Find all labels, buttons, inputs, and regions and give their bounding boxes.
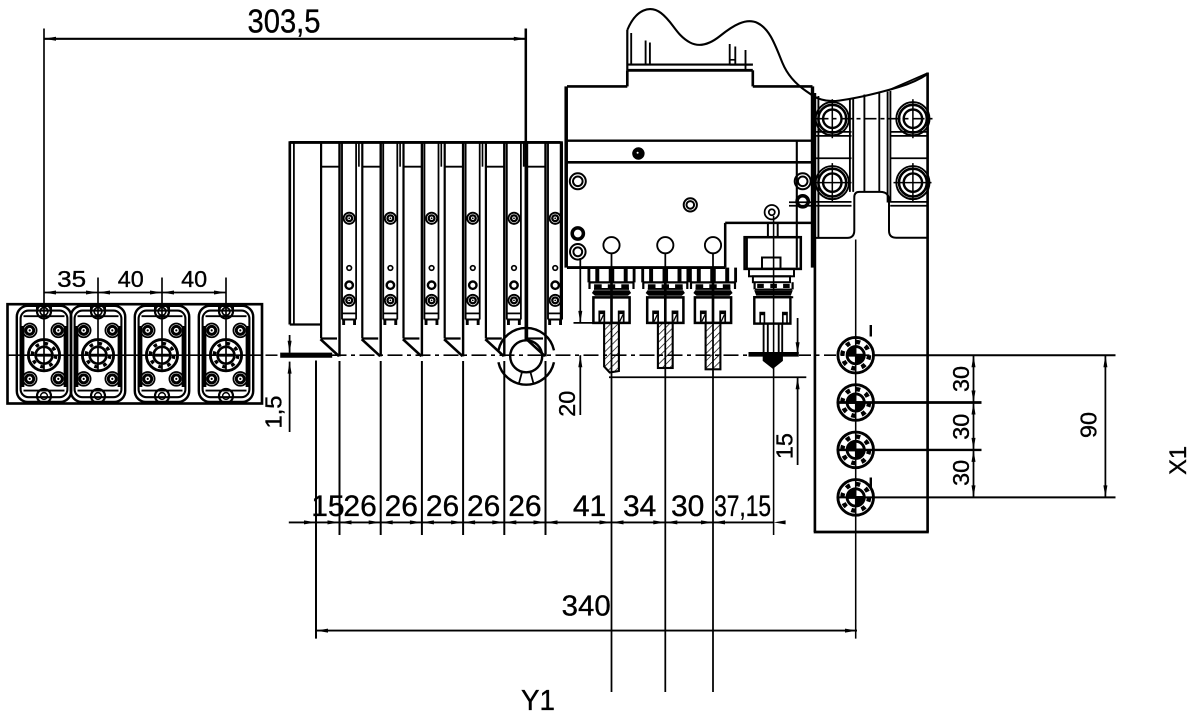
head bolt center bbox=[684, 198, 697, 211]
svg-text:26: 26 bbox=[426, 490, 459, 523]
collet slots bbox=[653, 311, 677, 323]
spindle 4 tool tip (solid) bbox=[763, 356, 783, 369]
station 1 centerline / dim 303,5 + 35 extension line bbox=[43, 29, 45, 373]
svg-text:15: 15 bbox=[771, 433, 797, 459]
collet chuck mounting teeth at x=665.3 bbox=[643, 268, 688, 283]
turret serrated coupling 2 bbox=[838, 385, 874, 421]
finger 4 small holes bbox=[467, 266, 478, 306]
spindle 4 tool sleeve bbox=[764, 324, 783, 353]
cut-off blade 2 bbox=[359, 142, 381, 356]
tool station 4 corner bolts bbox=[205, 324, 247, 386]
holder finger 5 bbox=[507, 142, 521, 325]
cut-off blade 4 bbox=[441, 142, 463, 356]
tool station 2 bottom pin bbox=[91, 389, 105, 403]
collet body bbox=[647, 282, 683, 323]
coupling alignment ticks bbox=[870, 325, 872, 489]
station 3 centerline bbox=[161, 278, 163, 373]
collet slots bbox=[701, 311, 725, 323]
corner slant line bbox=[888, 73, 928, 90]
centerline dash-dot right of bar bbox=[799, 354, 880, 356]
svg-text:26: 26 bbox=[385, 490, 418, 523]
tool station 4 bottom pin bbox=[219, 389, 233, 403]
finger 5 small holes bbox=[508, 266, 519, 306]
circular tool ring bbox=[498, 328, 554, 385]
holder finger 6 bbox=[548, 141, 562, 325]
main centerline dash-dot middle bbox=[332, 354, 749, 356]
joint lines left of plate bbox=[789, 202, 814, 206]
finger 2 small holes bbox=[385, 266, 396, 306]
coupling object lines right bbox=[838, 355, 1115, 497]
tool station 3 body bbox=[135, 306, 189, 402]
turret plate inner left line bbox=[817, 96, 819, 238]
tool station 4 serrated coupling bbox=[210, 340, 241, 371]
collet flange dashes bbox=[590, 282, 634, 289]
turret bolt mid-left bbox=[816, 163, 849, 202]
dowel pin (filled) bbox=[632, 147, 644, 159]
holder finger 4 bbox=[466, 142, 480, 325]
centerline dash bbox=[266, 354, 278, 356]
blade tip extension lines bbox=[340, 361, 546, 535]
finger 6 small holes bbox=[550, 266, 561, 306]
dimension 1,5 bbox=[261, 335, 292, 432]
spindle centerline bbox=[664, 253, 666, 692]
clamp mid columns bbox=[850, 91, 891, 203]
turret serrated coupling 4 bbox=[838, 480, 874, 516]
cut-off blade 3 bbox=[400, 142, 422, 356]
datum arrow at spindle 1 bbox=[609, 263, 614, 272]
blade holder top edge bbox=[290, 141, 561, 144]
datum extension line x=316 bbox=[315, 361, 317, 639]
tool station 1 bottom pin bbox=[37, 389, 51, 403]
finger 4 clamp bolt bbox=[467, 213, 478, 224]
svg-text:40: 40 bbox=[118, 266, 144, 292]
clamp horizontal joint lines bbox=[816, 132, 928, 206]
turret bolt top-left bbox=[816, 99, 849, 138]
collet clamping nut (solid) bbox=[693, 290, 732, 296]
station 2 centerline bbox=[97, 278, 99, 373]
dimension 303,5 bbox=[44, 3, 526, 41]
holder finger 1 bbox=[342, 142, 356, 325]
dimension 35 bbox=[44, 266, 98, 295]
tool station 2 corner bolts bbox=[77, 324, 119, 386]
spindle 4 mounting neck bbox=[768, 223, 778, 237]
svg-text:90: 90 bbox=[1076, 412, 1102, 438]
spindle centerline bbox=[611, 253, 613, 692]
tool station 1 corner bolts bbox=[23, 324, 65, 386]
dimension 20 bbox=[554, 258, 593, 417]
drill bit (hatched) bbox=[604, 323, 619, 373]
svg-text:20: 20 bbox=[554, 391, 580, 417]
svg-text:340: 340 bbox=[562, 591, 611, 623]
svg-text:303,5: 303,5 bbox=[248, 3, 321, 40]
station 4 centerline bbox=[225, 278, 227, 373]
tool station 1 top pin bbox=[37, 304, 51, 318]
turret bolt mid-right bbox=[896, 163, 929, 202]
centerline reference bar left (Y1 datum) bbox=[280, 353, 332, 358]
blade holder left wall bbox=[290, 141, 321, 324]
svg-text:40: 40 bbox=[181, 266, 207, 292]
upper block left studs bbox=[627, 30, 753, 70]
head plug right (filled ring) bbox=[797, 196, 808, 207]
spindle 4 centerline bbox=[773, 216, 775, 535]
upper block right studs bbox=[730, 44, 753, 70]
spindle bore circles bbox=[603, 237, 721, 253]
finger 3 clamp bolt bbox=[426, 213, 437, 224]
collet clamping nut (solid) bbox=[646, 290, 685, 296]
collet clamping nut (solid) bbox=[592, 290, 631, 296]
turret plate right edge bbox=[926, 73, 929, 533]
svg-text:34: 34 bbox=[623, 490, 656, 523]
mid bolt crosshairs bbox=[814, 182, 932, 184]
finger 3 small holes bbox=[426, 266, 437, 306]
drill head block outline bbox=[566, 70, 812, 267]
main centerline through left block bbox=[8, 354, 263, 356]
collet flange dashes bbox=[643, 282, 687, 289]
collet body bbox=[593, 282, 629, 323]
drill head right edge (thick) bbox=[811, 86, 814, 267]
finger 5 clamp bolt bbox=[508, 213, 519, 224]
spindle 4 body bbox=[754, 297, 790, 323]
tool station 2 body bbox=[71, 306, 125, 402]
clamp relief contour bbox=[816, 192, 927, 238]
svg-text:1,5: 1,5 bbox=[261, 396, 287, 429]
holder finger 3 bbox=[424, 142, 438, 325]
spindle 4 flange bbox=[749, 269, 794, 290]
spindle 4 clamping nut (solid) bbox=[754, 290, 793, 295]
dimension 340 bbox=[316, 591, 857, 633]
tool station 4 top pin bbox=[219, 304, 233, 318]
turret serrated coupling 1 bbox=[838, 337, 874, 373]
svg-text:30: 30 bbox=[948, 414, 974, 440]
cut-off blade 1 bbox=[321, 142, 340, 356]
svg-text:26: 26 bbox=[467, 490, 500, 523]
drill head horizontal joint lines bbox=[567, 139, 813, 141]
cut-off blade 5 bbox=[483, 142, 505, 356]
head plug left upper (filled ring) bbox=[572, 228, 583, 239]
dimension 90 bbox=[1076, 355, 1108, 497]
drill head inner right vertical bbox=[796, 141, 798, 268]
collet body bbox=[695, 282, 731, 323]
svg-text:30: 30 bbox=[948, 460, 974, 486]
cut-off blade 6 bbox=[524, 142, 546, 356]
left tool-station gang block outline bbox=[8, 304, 263, 403]
collet chuck mounting teeth at x=713.0 bbox=[690, 268, 735, 283]
dimension 40 (stations 2-3) bbox=[98, 266, 162, 295]
spindle centerline bbox=[712, 253, 714, 692]
head bolt right bbox=[795, 173, 811, 189]
tool station 3 corner bolts bbox=[141, 324, 183, 386]
holder finger 2 bbox=[383, 142, 397, 325]
drill bit (hatched) bbox=[658, 323, 673, 368]
svg-text:41: 41 bbox=[573, 490, 606, 523]
dimension 303,5 right extension line (dark) bbox=[525, 29, 528, 341]
svg-text:26: 26 bbox=[508, 490, 541, 523]
small pin above spindle 4 bbox=[765, 205, 779, 219]
tool station 3 bottom pin bbox=[155, 389, 169, 403]
tool station 1 body bbox=[17, 306, 71, 402]
collet chuck mounting teeth at x=611.5 bbox=[589, 268, 634, 283]
drill bit (hatched) bbox=[706, 323, 721, 369]
collet flange dashes bbox=[691, 282, 735, 289]
head bolt left lower bbox=[570, 244, 586, 260]
dimension 30 stack (right) bbox=[948, 355, 976, 497]
tool station 2 serrated coupling bbox=[82, 340, 113, 371]
svg-text:15: 15 bbox=[311, 490, 344, 523]
head bolt left bbox=[570, 173, 586, 189]
finger 1 small holes bbox=[344, 266, 355, 306]
turret bolt top-right bbox=[896, 99, 929, 138]
tool station 2 top pin bbox=[91, 304, 105, 318]
tool station 1 serrated coupling bbox=[28, 340, 59, 371]
turret serrated coupling 3 bbox=[838, 432, 874, 468]
svg-text:Y1: Y1 bbox=[521, 685, 555, 715]
svg-text:X1: X1 bbox=[1165, 446, 1192, 475]
svg-text:37,15: 37,15 bbox=[714, 490, 771, 523]
svg-text:26: 26 bbox=[343, 490, 376, 523]
centerline reference bar right bbox=[749, 352, 799, 357]
spindle 4 mounting box bbox=[745, 237, 801, 269]
turret plate bottom edge bbox=[814, 531, 929, 534]
turret plate left edge bbox=[814, 93, 817, 532]
dimension chain 15/26/26/26/26/26/41/34/30/37,15 bbox=[289, 490, 786, 524]
tool station 4 body bbox=[199, 306, 253, 402]
bolt row centerline bbox=[817, 118, 935, 120]
finger 6 clamp bolt bbox=[550, 213, 561, 224]
dimension 40 (stations 3-4) bbox=[162, 266, 226, 295]
collet slots bbox=[599, 311, 623, 323]
svg-text:30: 30 bbox=[671, 490, 704, 523]
finger 1 clamp bolt bbox=[344, 213, 355, 224]
turret coupling centerline bbox=[855, 240, 857, 639]
svg-text:35: 35 bbox=[57, 266, 86, 292]
tool station 3 serrated coupling bbox=[146, 340, 177, 371]
finger 2 clamp bolt bbox=[385, 213, 396, 224]
upper gearbox break outline (wavy) bbox=[627, 9, 927, 101]
tool station 3 top pin bbox=[155, 304, 169, 318]
svg-text:30: 30 bbox=[948, 366, 974, 392]
dimension 15 (vertical, right of spindle 4) bbox=[609, 318, 806, 465]
